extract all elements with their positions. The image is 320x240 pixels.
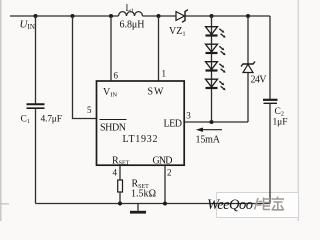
- svg-text:1: 1: [162, 69, 167, 79]
- scan edge smudge right: [298, 0, 299, 221]
- svg-text:1μF: 1μF: [273, 118, 288, 128]
- wire: pin 6 stub: [110, 16, 112, 81]
- wire: LED column: [211, 16, 213, 122]
- wire: resistor to rail: [119, 192, 121, 204]
- LED D1: [206, 27, 226, 38]
- node dot SW tap: [157, 14, 161, 18]
- svg-text:IN: IN: [28, 23, 35, 31]
- LED D3: [206, 62, 226, 73]
- svg-text:15mA: 15mA: [196, 135, 221, 146]
- watermark box: [217, 193, 299, 218]
- svg-text:6: 6: [114, 71, 119, 81]
- svg-text:2: 2: [167, 168, 172, 178]
- svg-text:1.5kΩ: 1.5kΩ: [131, 189, 156, 200]
- scan edge smudge left: [0, 0, 2, 221]
- wire: pin 2 stub: [164, 165, 166, 203]
- wire: top rail left segment: [10, 15, 119, 17]
- wire: pin 3 LED line: [184, 121, 248, 123]
- ground: [130, 204, 146, 214]
- node dot LED column bottom: [210, 120, 214, 124]
- node dot VIN tap: [109, 14, 113, 18]
- svg-text:GND: GND: [153, 155, 173, 166]
- svg-text:6.8μH: 6.8μH: [120, 20, 145, 31]
- wire: zener branch lower: [247, 73, 249, 123]
- watermark CJK glyph 1: [255, 198, 271, 211]
- wire: pin 1 stub: [158, 16, 160, 81]
- node dot C1 tap: [34, 14, 38, 18]
- zener diode 24V: [241, 62, 255, 73]
- diode VZ1: [176, 10, 188, 23]
- wire: pin 4 stub: [119, 165, 121, 180]
- svg-text:SW: SW: [148, 87, 165, 98]
- LED D4: [206, 79, 226, 90]
- wire: top rail right segment: [186, 15, 271, 17]
- svg-text:5: 5: [87, 105, 92, 115]
- node dot resistor-rail: [118, 202, 122, 206]
- LED D2: [206, 44, 226, 55]
- svg-text:4: 4: [113, 168, 118, 178]
- SHDN overline: [100, 119, 127, 121]
- svg-text:LT1932: LT1932: [123, 134, 158, 145]
- watermark CJK glyph 2: [272, 197, 285, 211]
- svg-text:3: 3: [186, 111, 191, 121]
- wire: C2 branch lower: [269, 104, 271, 204]
- svg-text:WeeQoo: WeeQoo: [207, 197, 253, 213]
- scan artifact bottom-left: [0, 203, 9, 205]
- wire: zener branch upper: [247, 16, 249, 64]
- svg-text:SHDN: SHDN: [100, 123, 126, 134]
- wire: C2 branch upper: [269, 16, 271, 99]
- svg-text:LED: LED: [164, 119, 183, 130]
- svg-text:4.7μF: 4.7μF: [41, 115, 63, 125]
- node dot zener tap: [246, 14, 250, 18]
- svg-text:24V: 24V: [251, 75, 268, 86]
- wire: top rail mid segment: [143, 15, 177, 17]
- 15mA arrow: [196, 128, 222, 132]
- inductor L1: [119, 12, 143, 16]
- capacitor C2: [263, 100, 278, 104]
- wire: C1 branch lower: [35, 109, 37, 204]
- capacitor C1: [27, 104, 45, 108]
- node dot SHDN tap: [71, 14, 75, 18]
- wire: bottom rail: [36, 203, 271, 205]
- op-amp U1 LT1932 box: [97, 81, 185, 165]
- node dot pin2-rail: [163, 202, 167, 206]
- wire: C1 branch upper: [35, 16, 37, 104]
- wire: SHDN connection: [73, 16, 97, 119]
- node dot LED column tap: [210, 14, 214, 18]
- resistor RSET: [118, 180, 123, 192]
